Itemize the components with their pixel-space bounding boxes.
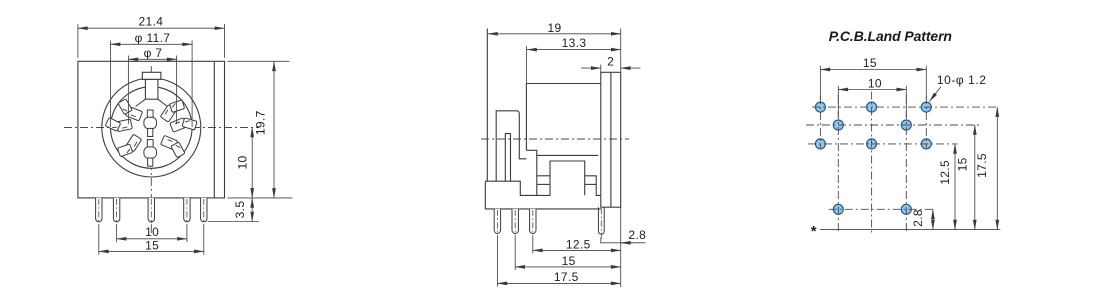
svg-text:15: 15 [956,157,970,171]
svg-text:19.7: 19.7 [254,110,268,135]
dim 17.5 pcb line [996,107,998,230]
solder pad 8 [921,139,931,149]
dim 12.5 pcb line [954,144,956,230]
side view shield pin [598,207,604,234]
leader line for 10-phi1.2 [930,87,942,102]
contact pin upper-right [158,96,188,124]
contact pin lower-left [115,132,145,160]
dim 2.8 pcb line [932,209,934,229]
dim 15 extension line [514,238,516,270]
terminal pin 2 [113,198,119,222]
front view vertical centerline [150,66,152,233]
svg-text:*: * [811,223,817,240]
pad row B centerline [806,124,979,126]
svg-text:2.8: 2.8 [911,209,925,227]
svg-text:13.3: 13.3 [562,36,587,50]
pad row A centerline [812,106,999,108]
svg-text:15: 15 [562,254,576,268]
solder pad 6 [815,139,825,149]
dim 21.4 line [78,27,225,29]
svg-text:10-φ 1.2: 10-φ 1.2 [937,73,987,87]
pad row D centerline [829,208,936,210]
dim 10 top line [838,89,906,91]
dim 17.5 extension line [496,238,498,287]
side view inner step line [536,155,538,196]
side view terminal pin 3 [530,209,536,234]
dim phi7 extension lines [127,56,129,125]
solder pad 10 [901,204,911,214]
contact pin center-bottom [147,140,153,148]
side view horizontal centerline [481,138,629,140]
side view rear box [526,84,600,156]
side view front tube top profile [496,111,526,181]
front view outer shield circle [102,78,201,177]
contact pin center-top [147,110,153,118]
dim 15 top extension lines [819,66,821,99]
svg-text:φ 11.7: φ 11.7 [135,31,171,45]
svg-text:15: 15 [145,239,159,253]
side view terminal pin 1 [494,209,500,234]
dim 2.8 line [600,238,602,244]
terminal pin 1 [96,198,102,222]
solder pad 1 [815,102,825,112]
front view keyway bump [142,72,161,79]
key bar right diagonal link [158,99,168,106]
solder pad 9 [833,204,843,214]
side view center contact rect [505,134,510,182]
dim 10 right line [251,128,253,198]
key bar left diagonal link [136,99,146,106]
side view flange inner line [610,72,612,207]
pad column line 5 [925,96,927,148]
solder pad 5 [901,120,911,130]
pad column line 4 [905,95,907,233]
dim 21.4 extension lines [77,24,79,58]
svg-text:17.5: 17.5 [975,153,989,178]
front view horizontal centerline [64,127,259,129]
side view front face line [486,29,488,182]
solder pad 4 [833,120,843,130]
dim 15 bottom line [99,250,204,252]
dim 15 top line [820,69,926,71]
dim 2 extension lines [600,65,602,73]
dim 15 line [515,266,621,268]
dim phi7 line [128,58,176,60]
svg-text:3.5: 3.5 [233,201,247,219]
side view base block [485,181,601,209]
svg-text:19: 19 [547,21,561,35]
dim 17.5 line [497,282,620,284]
side view terminal pin 2 [512,209,518,234]
svg-text:2: 2 [607,54,614,68]
side view lower profile [485,161,601,195]
svg-text:φ 7: φ 7 [144,46,163,60]
dim 2.8 extension line [620,207,622,287]
pad row C centerline [808,143,958,145]
dim 12.5 line [533,249,621,251]
front view body outline [78,61,225,198]
dim 19.7 line [273,61,275,198]
contact pin left [105,117,133,133]
dim 12.5 extension line [532,238,534,254]
contact pin right [169,117,197,133]
contact pin upper-left [115,96,145,124]
dim 13.3 extension line [525,46,527,84]
side view right ledge line [585,183,597,185]
solder pad 3 [921,102,931,112]
terminal pin 5 [201,198,207,222]
svg-text:17.5: 17.5 [554,270,579,284]
pad column line 1 [819,96,821,148]
PCB bottom reference line [820,229,1001,231]
pad column line 3 [871,92,873,233]
dim 15 pcb line [974,125,976,230]
side view mounting flange [601,72,621,207]
dim 2 arrows [581,67,601,69]
svg-text:15: 15 [863,56,877,70]
dim phi11.7 line [111,43,193,45]
solder pad 7 [867,139,877,149]
svg-text:10: 10 [868,76,882,90]
svg-text:12.5: 12.5 [566,238,591,252]
svg-text:2.8: 2.8 [628,228,646,242]
dim 13.3 line [527,49,621,51]
terminal pin 3 (center) [148,198,154,222]
solder pad 2 [867,102,877,112]
dim 3.5 line [251,198,253,222]
front view inner circle [111,87,193,169]
dim 10 bottom line [117,238,187,240]
dim 10 bottom extension lines [116,225,118,242]
svg-text:12.5: 12.5 [938,160,952,185]
dim phi11.7 extension lines [110,41,112,128]
svg-text:10: 10 [145,225,159,239]
dim 19.7 top extension line [228,60,290,62]
front view key bar [145,79,158,99]
svg-text:21.4: 21.4 [139,15,164,29]
svg-text:P.C.B.Land Pattern: P.C.B.Land Pattern [829,28,952,44]
dim 15 bottom extension lines [98,225,100,255]
svg-text:10: 10 [235,155,249,169]
pad column line 2 [837,95,839,233]
contact pin lower-right [158,132,188,160]
terminal pin 4 [184,198,190,222]
front view body inner edge line [213,61,215,198]
pin bottom extension line [208,221,260,223]
dim 19.7 bottom extension line [228,197,293,199]
dim 19 line [488,33,621,35]
side view left ledge lines [537,175,550,177]
dim 10 top extension lines [837,86,839,117]
